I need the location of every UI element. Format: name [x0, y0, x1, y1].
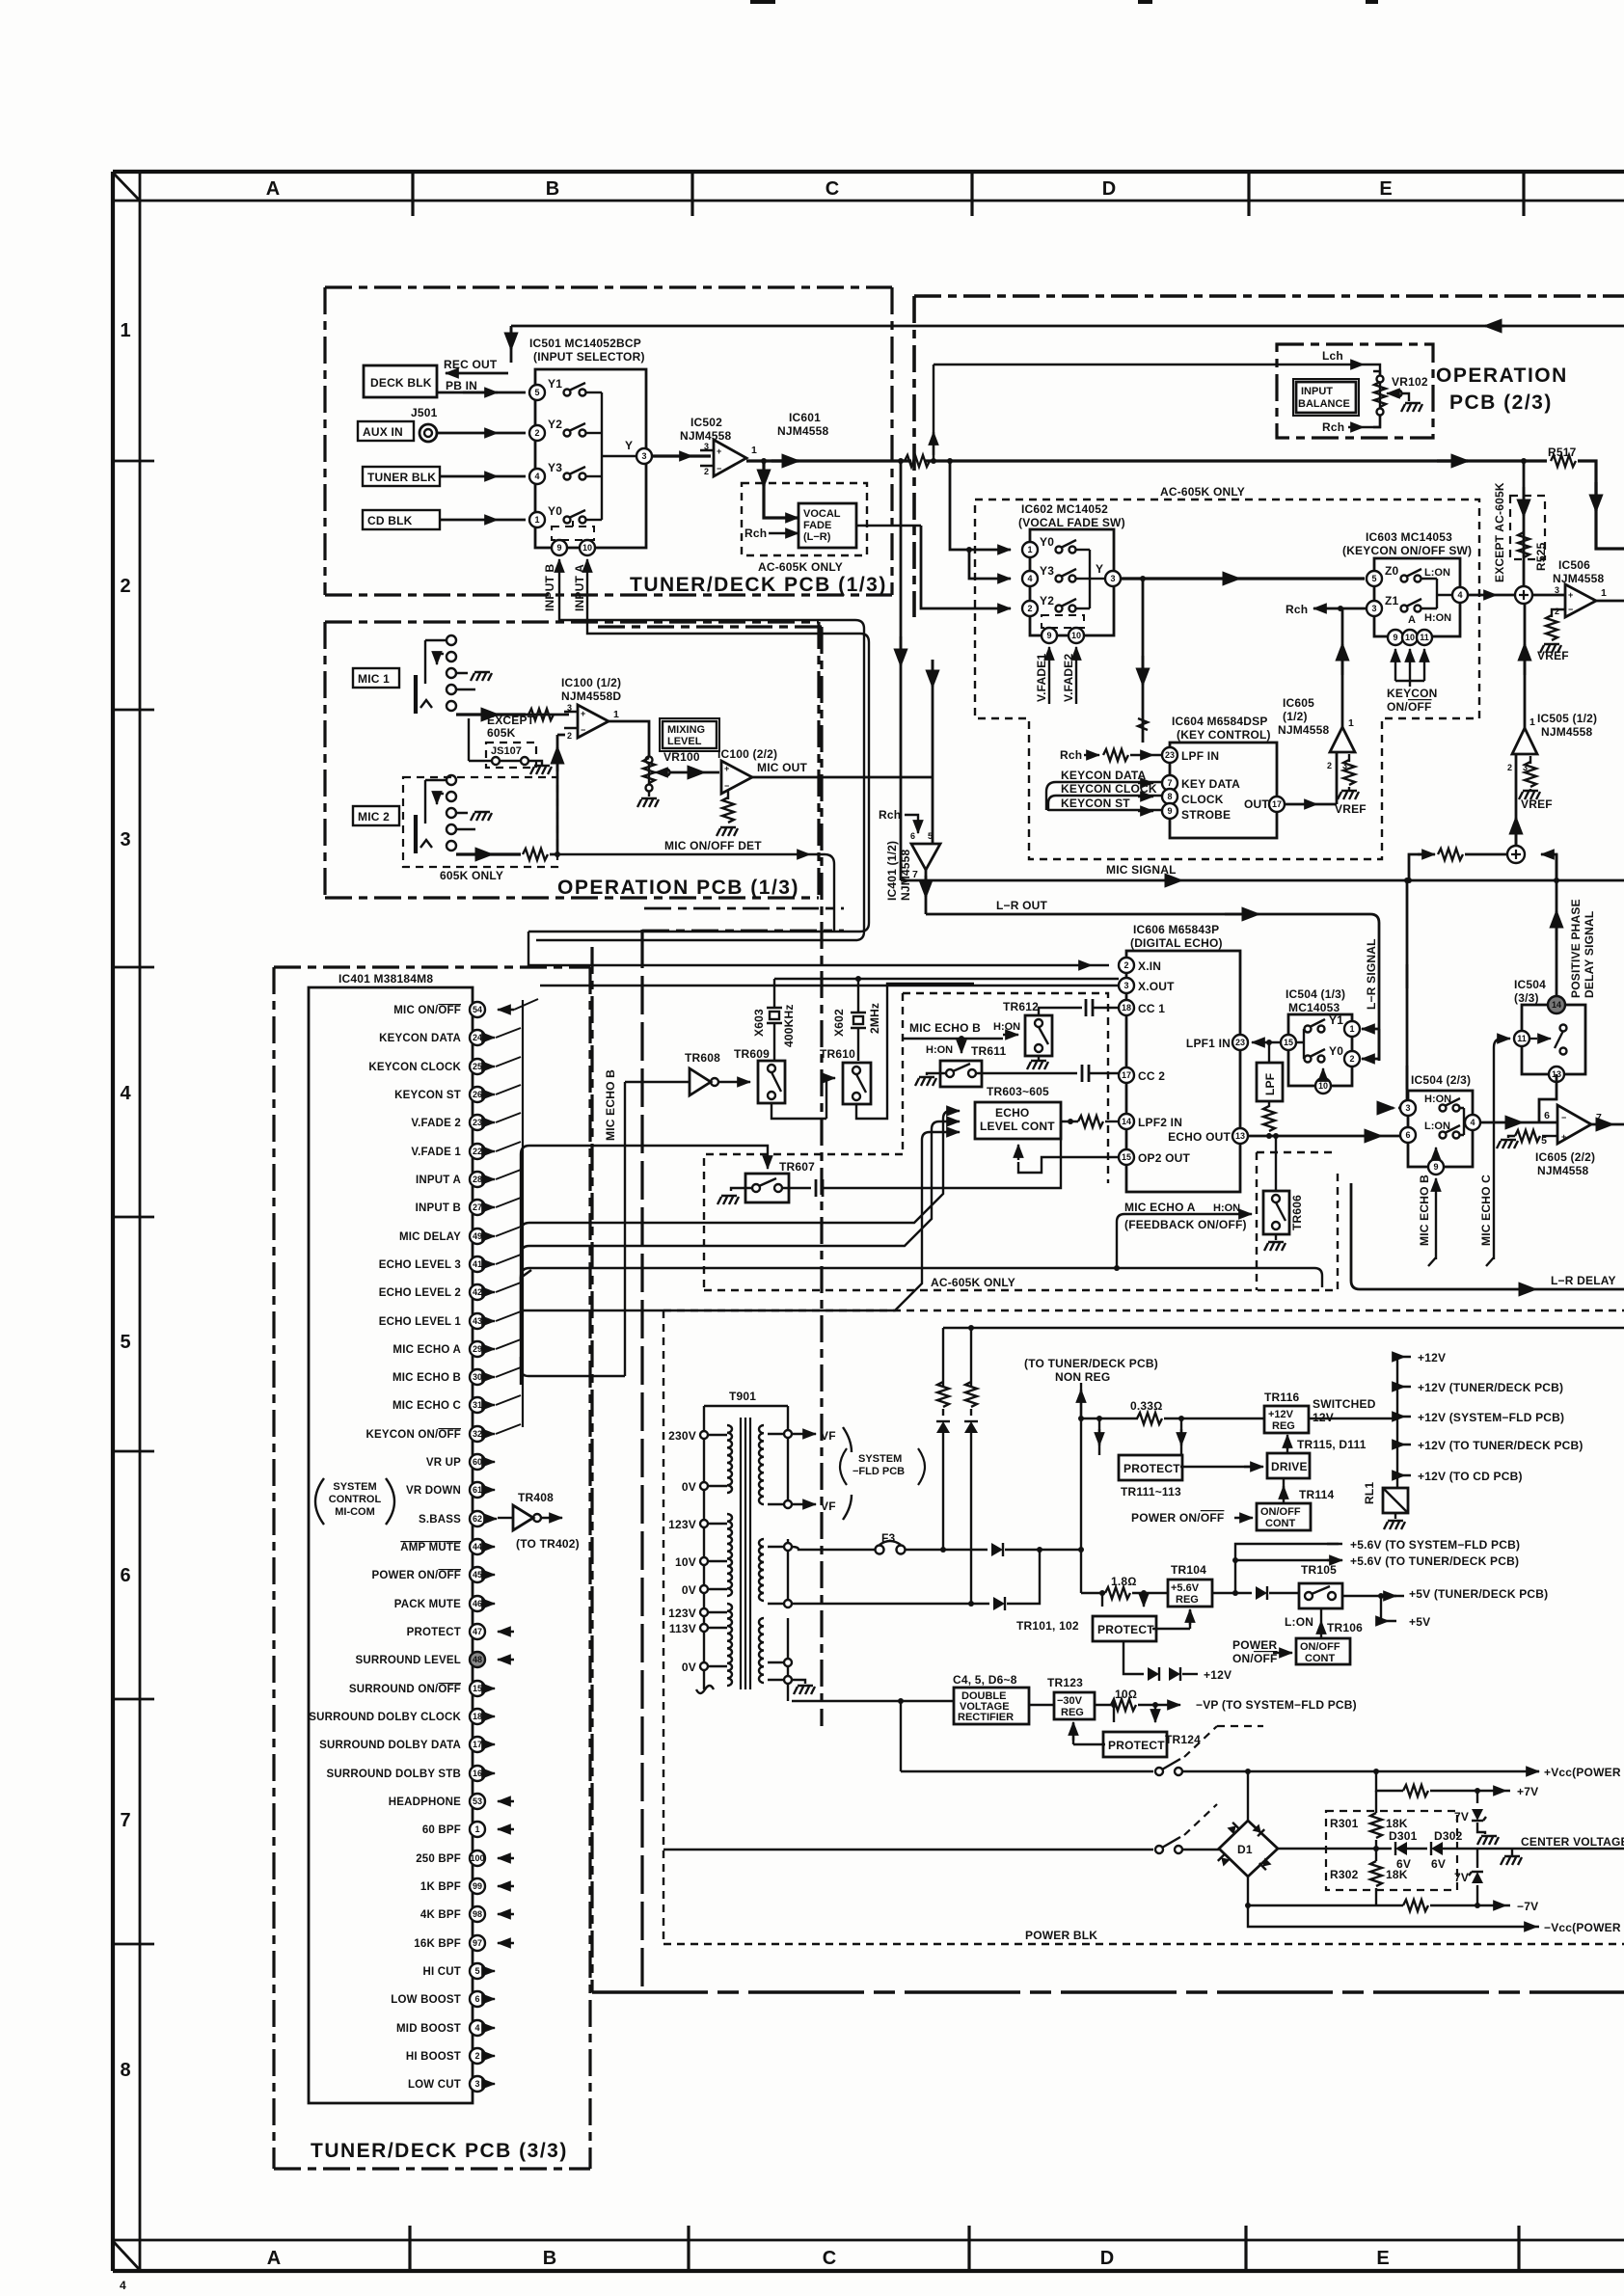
IC602 pin 4 switch Y3: [1022, 571, 1038, 586]
svg-text:VR UP: VR UP: [426, 1457, 461, 1469]
svg-text:VR100: VR100: [663, 750, 700, 764]
svg-text:EXCEPT: EXCEPT: [487, 714, 535, 727]
svg-text:JS107: JS107: [491, 745, 522, 757]
svg-text:1: 1: [120, 320, 130, 341]
svg-text:2: 2: [704, 467, 709, 476]
wire ECHO OUT line: [1248, 1135, 1400, 1138]
svg-text:VR102: VR102: [1392, 375, 1428, 389]
IC602 pins 9 10 V.FADE: [1042, 628, 1057, 643]
svg-text:6: 6: [1544, 1110, 1550, 1121]
svg-text:41: 41: [473, 1259, 482, 1269]
output -VP: [1171, 1704, 1180, 1706]
dashed region AC-605K (echo): [704, 993, 1338, 1290]
svg-text:NJM4558: NJM4558: [1541, 725, 1593, 739]
svg-text:10Ω: 10Ω: [1115, 1688, 1137, 1701]
svg-text:4: 4: [120, 1083, 131, 1104]
svg-text:6: 6: [910, 831, 915, 841]
svg-text:+5.6V (TO SYSTEM−FLD PCB): +5.6V (TO SYSTEM−FLD PCB): [1350, 1538, 1520, 1552]
svg-text:7V: 7V: [1454, 1810, 1469, 1823]
PCB border big box top edge (operation 2/3): [914, 294, 1624, 298]
IC606 pin 2 X.IN: [1119, 958, 1134, 973]
svg-text:POWER BLK: POWER BLK: [1025, 1929, 1097, 1942]
svg-text:+12V (TUNER/DECK PCB): +12V (TUNER/DECK PCB): [1418, 1381, 1563, 1394]
svg-text:H:ON: H:ON: [993, 1021, 1020, 1033]
svg-text:D301: D301: [1389, 1829, 1418, 1843]
svg-text:CONT: CONT: [1305, 1653, 1335, 1664]
block CD BLK: [363, 510, 440, 529]
svg-text:3: 3: [567, 703, 572, 713]
T901 VF outputs: [792, 1433, 816, 1435]
svg-text:0V: 0V: [682, 1480, 696, 1494]
svg-text:LPF: LPF: [1263, 1073, 1277, 1095]
wire R517 to right edge: [1578, 461, 1624, 549]
svg-text:LPF IN: LPF IN: [1181, 749, 1219, 763]
output +12V (TUNER/DECK PCB): [1397, 1386, 1411, 1388]
svg-text:Z1: Z1: [1385, 594, 1399, 608]
svg-text:+: +: [581, 709, 585, 718]
resistor (line): [905, 455, 930, 467]
svg-text:NJM4558: NJM4558: [777, 424, 829, 438]
svg-text:3: 3: [641, 451, 646, 461]
svg-text:1: 1: [474, 1824, 479, 1834]
IC501 pin 5 switch Y1: [529, 385, 545, 400]
wire IC504(2/3) out to IC605(2/2): [1480, 1121, 1557, 1124]
+12V output arrows: [1396, 1357, 1398, 1488]
svg-text:MIC ECHO A: MIC ECHO A: [1124, 1201, 1196, 1214]
svg-text:CC 2: CC 2: [1138, 1069, 1165, 1083]
svg-text:11: 11: [1517, 1034, 1527, 1043]
svg-text:A: A: [267, 2248, 281, 2269]
svg-text:47: 47: [473, 1627, 482, 1636]
svg-text:42: 42: [473, 1287, 482, 1297]
svg-text:AC-605K ONLY: AC-605K ONLY: [1160, 485, 1245, 499]
svg-text:−30V: −30V: [1057, 1695, 1083, 1707]
svg-text:SYSTEM: SYSTEM: [858, 1453, 902, 1465]
svg-text:VREF: VREF: [1521, 797, 1553, 811]
svg-text:LEVEL: LEVEL: [667, 736, 702, 747]
svg-text:+: +: [724, 764, 729, 773]
svg-text:MIC ECHO B: MIC ECHO B: [909, 1021, 981, 1035]
svg-text:(KEYCON ON/OFF SW): (KEYCON ON/OFF SW): [1342, 544, 1472, 557]
T901 core: [741, 1418, 750, 1689]
svg-text:CC 1: CC 1: [1138, 1002, 1165, 1015]
svg-text:VOCAL: VOCAL: [803, 508, 841, 520]
svg-text:IC602 MC14052: IC602 MC14052: [1021, 502, 1108, 516]
svg-text:POWER: POWER: [1232, 1638, 1277, 1652]
switch (power amp relay contact 1): [901, 1770, 1153, 1772]
svg-text:10: 10: [1318, 1081, 1328, 1091]
svg-text:15: 15: [1122, 1152, 1131, 1162]
resistor + ground IC605(2/2) pin5: [1514, 1135, 1541, 1137]
svg-text:+: +: [1561, 1132, 1566, 1142]
svg-text:30: 30: [473, 1372, 482, 1382]
svg-text:+12V: +12V: [1268, 1409, 1294, 1420]
svg-text:IC504 (2/3): IC504 (2/3): [1411, 1073, 1471, 1087]
svg-text:INPUT B: INPUT B: [543, 563, 556, 611]
svg-text:PACK MUTE: PACK MUTE: [394, 1599, 461, 1610]
wire NON REG bus: [1080, 1383, 1082, 1593]
svg-text:TR111~113: TR111~113: [1121, 1485, 1181, 1499]
svg-text:PCB (2/3): PCB (2/3): [1449, 392, 1553, 414]
svg-text:16: 16: [473, 1769, 482, 1778]
svg-text:MIC ECHO C: MIC ECHO C: [392, 1400, 461, 1412]
IC501 pin 3 output: [636, 448, 652, 464]
svg-text:17: 17: [473, 1740, 482, 1749]
PCB border vertical x614: [590, 947, 593, 1992]
wire input bus B: [536, 608, 864, 940]
resistor + VREF under IC506: [1552, 609, 1565, 617]
svg-text:TR124: TR124: [1165, 1733, 1201, 1746]
output +5V (TUNER/DECK PCB): [1389, 1595, 1404, 1597]
svg-text:1: 1: [1349, 1024, 1354, 1034]
svg-text:IC604 M6584DSP: IC604 M6584DSP: [1172, 715, 1268, 728]
svg-text:2: 2: [1555, 607, 1559, 616]
svg-text:HI BOOST: HI BOOST: [406, 2051, 461, 2063]
svg-text:IC504: IC504: [1514, 978, 1546, 991]
svg-text:LPF2 IN: LPF2 IN: [1138, 1116, 1182, 1129]
svg-text:0V: 0V: [682, 1661, 696, 1674]
svg-text:R525: R525: [1534, 542, 1548, 571]
svg-text:SURROUND DOLBY CLOCK: SURROUND DOLBY CLOCK: [309, 1712, 461, 1723]
svg-text:R302: R302: [1330, 1868, 1359, 1881]
svg-text:TR115, D111: TR115, D111: [1297, 1438, 1367, 1451]
IC501 pins 9 10: [552, 540, 567, 555]
svg-text:PB IN: PB IN: [446, 379, 477, 392]
svg-text:SWITCHED: SWITCHED: [1313, 1397, 1376, 1411]
svg-text:ON/OFF: ON/OFF: [1232, 1652, 1278, 1665]
dashed box R301/R302: [1326, 1811, 1457, 1890]
svg-text:+12V: +12V: [1204, 1668, 1232, 1682]
svg-text:TR608: TR608: [685, 1051, 720, 1065]
svg-text:CLOCK: CLOCK: [1181, 793, 1224, 806]
svg-text:2: 2: [1327, 761, 1332, 770]
svg-text:ON/OFF: ON/OFF: [1260, 1506, 1301, 1518]
svg-text:1: 1: [613, 709, 619, 720]
svg-text:H:ON: H:ON: [1213, 1202, 1240, 1214]
svg-text:17: 17: [1272, 799, 1282, 809]
connector MIC 2 jack: [403, 777, 557, 867]
block LPF: [1268, 1042, 1270, 1063]
svg-text:1: 1: [1348, 717, 1354, 729]
svg-text:D: D: [1100, 2248, 1114, 2269]
svg-text:8: 8: [1167, 792, 1172, 801]
svg-text:E: E: [1376, 2248, 1389, 2269]
svg-text:RECTIFIER: RECTIFIER: [958, 1712, 1014, 1723]
svg-text:HEADPHONE: HEADPHONE: [389, 1796, 461, 1808]
svg-text:REG: REG: [1272, 1420, 1295, 1432]
output +12V (TO TUNER/DECK PCB): [1397, 1444, 1411, 1445]
svg-text:MIC ECHO A: MIC ECHO A: [392, 1344, 461, 1356]
svg-text:7: 7: [1167, 778, 1172, 788]
svg-text:4K BPF: 4K BPF: [420, 1909, 461, 1921]
svg-text:5: 5: [474, 1966, 479, 1976]
svg-text:POWER ON/OFF: POWER ON/OFF: [372, 1570, 462, 1581]
svg-text:250 BPF: 250 BPF: [416, 1853, 461, 1865]
power rail top: [943, 1327, 1624, 1329]
svg-text:S.BASS: S.BASS: [419, 1514, 461, 1526]
svg-text:31: 31: [473, 1400, 482, 1410]
svg-text:TR123: TR123: [1047, 1676, 1083, 1689]
svg-text:46: 46: [473, 1599, 482, 1608]
svg-text:3: 3: [1123, 981, 1128, 990]
svg-text:MIC 2: MIC 2: [358, 810, 390, 824]
IC602 pin 1 switch Y0: [1022, 542, 1038, 557]
svg-text:INPUT B: INPUT B: [416, 1202, 461, 1214]
svg-text:KEY DATA: KEY DATA: [1181, 777, 1240, 791]
svg-text:MIC ON/OFF: MIC ON/OFF: [393, 1005, 461, 1016]
svg-text:C: C: [823, 2248, 836, 2269]
svg-text:L−R DELAY: L−R DELAY: [1551, 1274, 1616, 1287]
svg-text:TR606: TR606: [1290, 1195, 1304, 1230]
wire MIC ECHO B bus x648: [624, 1082, 626, 1376]
svg-text:10: 10: [1071, 631, 1081, 640]
svg-text:Y1: Y1: [1329, 1013, 1343, 1027]
PCB block TUNER/DECK PCB (3/3) border: [274, 967, 590, 2169]
bridge rectifier D1: [1219, 1821, 1278, 1877]
svg-text:V.FADE 1: V.FADE 1: [411, 1147, 461, 1158]
svg-text:ECHO LEVEL 1: ECHO LEVEL 1: [379, 1316, 462, 1328]
svg-text:IC100 (2/2): IC100 (2/2): [717, 747, 777, 761]
T901 tap 0V: [700, 1662, 708, 1670]
svg-text:IC606 M65843P: IC606 M65843P: [1133, 923, 1219, 936]
output -Vcc: [1248, 1905, 1539, 1927]
svg-text:+12V (SYSTEM−FLD PCB): +12V (SYSTEM−FLD PCB): [1418, 1411, 1564, 1424]
wire channel vertical x542: [522, 1000, 524, 1427]
svg-text:3: 3: [1110, 574, 1115, 583]
svg-text:2: 2: [1349, 1054, 1354, 1064]
svg-text:STROBE: STROBE: [1181, 808, 1231, 822]
wire X.IN feed: [528, 964, 1109, 966]
wire bridge top to +Vcc: [1182, 1770, 1539, 1772]
block MIXING LEVEL: [663, 721, 717, 748]
svg-text:AC-605K ONLY: AC-605K ONLY: [931, 1276, 1015, 1289]
T901 tap 230V: [700, 1431, 708, 1439]
wire channel top: [528, 965, 529, 967]
svg-text:DELAY SIGNAL: DELAY SIGNAL: [1583, 911, 1596, 998]
svg-text:7V: 7V: [1454, 1871, 1469, 1884]
svg-text:10: 10: [582, 543, 592, 553]
svg-text:J501: J501: [411, 406, 438, 419]
capacitor CC1: [1052, 1007, 1082, 1009]
T901 tap 0V: [700, 1482, 708, 1490]
IC501 pin 2 switch Y2: [529, 425, 545, 441]
svg-text:+12V (TO CD PCB): +12V (TO CD PCB): [1418, 1470, 1523, 1483]
svg-text:B: B: [546, 178, 559, 200]
wire input bus A: [528, 617, 869, 932]
svg-text:CONTROL: CONTROL: [329, 1494, 382, 1505]
svg-text:4: 4: [474, 2023, 479, 2033]
svg-text:IC501 MC14052BCP: IC501 MC14052BCP: [529, 337, 641, 350]
svg-text:53: 53: [473, 1796, 482, 1806]
svg-text:D1: D1: [1237, 1843, 1253, 1856]
svg-text:Rch: Rch: [1060, 748, 1082, 762]
svg-text:7: 7: [120, 1810, 130, 1831]
svg-text:54: 54: [473, 1005, 482, 1014]
scan artifacts top edge: [750, 0, 775, 4]
output +5V: [1381, 1596, 1396, 1621]
svg-text:98: 98: [473, 1909, 482, 1919]
svg-text:T901: T901: [729, 1390, 756, 1403]
svg-text:6: 6: [1405, 1130, 1410, 1140]
IC603 pin 4 output: [1452, 587, 1468, 603]
svg-text:Y3: Y3: [548, 461, 562, 474]
T901 tap 10V: [700, 1557, 708, 1565]
svg-text:3: 3: [704, 442, 709, 451]
svg-text:NON REG: NON REG: [1055, 1370, 1110, 1384]
svg-text:3: 3: [1371, 604, 1376, 613]
svg-text:4: 4: [1027, 574, 1032, 583]
block PROTECT TR124: [1103, 1732, 1167, 1757]
svg-text:TUNER/DECK PCB (3/3): TUNER/DECK PCB (3/3): [311, 2140, 568, 2162]
svg-text:BALANCE: BALANCE: [1298, 398, 1350, 410]
svg-text:A: A: [1408, 614, 1416, 626]
svg-text:1: 1: [1529, 716, 1535, 728]
svg-text:(TO TR402): (TO TR402): [516, 1537, 580, 1551]
svg-text:TR612: TR612: [1003, 1000, 1039, 1013]
PCB block TUNER/DECK PCB (1/3) border: [325, 287, 892, 595]
wire LPF2 IN: [1061, 1121, 1078, 1122]
svg-text:PROTECT: PROTECT: [1123, 1462, 1180, 1475]
svg-text:TR610: TR610: [820, 1047, 855, 1061]
svg-text:MIC 1: MIC 1: [358, 672, 390, 686]
svg-text:Y2: Y2: [1040, 594, 1054, 608]
output +12V (SYSTEM-FLD PCB): [1397, 1416, 1411, 1418]
svg-text:TR104: TR104: [1171, 1563, 1206, 1577]
T901 secondary windings: [759, 1425, 764, 1504]
svg-text:NJM4558: NJM4558: [680, 429, 732, 443]
svg-text:−: −: [581, 725, 585, 735]
T901 primary windings: [727, 1425, 732, 1493]
svg-text:Y0: Y0: [1040, 535, 1054, 549]
svg-text:15: 15: [1284, 1038, 1293, 1047]
svg-text:45: 45: [473, 1570, 482, 1580]
svg-text:(INPUT SELECTOR): (INPUT SELECTOR): [533, 350, 645, 364]
junction sum node to IC506: [1515, 586, 1532, 604]
svg-text:2: 2: [1123, 960, 1128, 970]
svg-text:+: +: [717, 446, 721, 456]
svg-text:60 BPF: 60 BPF: [422, 1824, 461, 1836]
svg-text:62: 62: [473, 1514, 482, 1524]
svg-text:3: 3: [1405, 1103, 1410, 1113]
svg-text:18: 18: [473, 1712, 482, 1721]
IC501 pin 4 switch Y3: [529, 469, 545, 484]
block PROTECT TR111~113: [1119, 1455, 1182, 1480]
switch (power amp relay contact 2): [663, 1849, 1153, 1850]
IC603 pin 3 switch Z1: [1367, 601, 1382, 616]
svg-text:KEYCON DATA: KEYCON DATA: [379, 1033, 461, 1044]
svg-text:IC401 M38184M8: IC401 M38184M8: [338, 972, 433, 986]
wire mic1 to IC100: [456, 713, 526, 716]
svg-text:7: 7: [1596, 1112, 1602, 1123]
svg-text:(KEY CONTROL): (KEY CONTROL): [1177, 728, 1271, 742]
svg-text:LOW CUT: LOW CUT: [408, 2079, 461, 2091]
output +7V: [1376, 1771, 1403, 1791]
svg-text:100: 100: [470, 1853, 484, 1863]
IC603 pins 9 10 11 KEYCON: [1388, 630, 1403, 645]
svg-text:3: 3: [120, 829, 130, 851]
svg-text:B: B: [543, 2248, 556, 2269]
svg-text:17: 17: [1122, 1070, 1131, 1080]
T901 tap 0V: [700, 1585, 708, 1593]
IC606 pin 18 CC 1: [1119, 1000, 1134, 1015]
svg-text:TR408: TR408: [518, 1491, 554, 1504]
svg-text:TR607: TR607: [779, 1160, 815, 1174]
svg-text:L:ON: L:ON: [1424, 1121, 1450, 1132]
svg-text:X.OUT: X.OUT: [1138, 980, 1175, 993]
svg-text:29: 29: [473, 1344, 482, 1354]
output +12V (TO CD PCB): [1397, 1474, 1411, 1476]
svg-text:49: 49: [473, 1231, 482, 1241]
svg-text:RL1: RL1: [1363, 1482, 1376, 1504]
T901 tap 113V: [700, 1624, 708, 1632]
block DECK BLK: [364, 365, 437, 397]
svg-text:A: A: [266, 178, 280, 200]
svg-text:X.IN: X.IN: [1138, 959, 1161, 973]
svg-text:SYSTEM: SYSTEM: [333, 1481, 376, 1493]
wire bottom secondary to DVR: [792, 1700, 954, 1702]
svg-text:Rch: Rch: [879, 808, 901, 822]
output +12V: [1397, 1356, 1411, 1358]
svg-text:2: 2: [567, 731, 572, 741]
diode rectifier (second line): [993, 1597, 1005, 1610]
op-amp IC605 (2/2): [1557, 1105, 1591, 1144]
svg-text:123V: 123V: [668, 1518, 696, 1531]
svg-text:D: D: [1102, 178, 1116, 200]
resistor + ground under IC100 (2/2): [727, 791, 729, 799]
svg-text:+5.6V: +5.6V: [1171, 1582, 1200, 1594]
PCB block OPERATION PCB (2/3) inner box: [1277, 344, 1433, 438]
wire LPF1 IN link: [1252, 1041, 1281, 1043]
svg-text:X602: X602: [832, 1009, 846, 1037]
svg-text:OPERATION PCB (1/3): OPERATION PCB (1/3): [557, 877, 799, 899]
svg-text:11: 11: [1420, 633, 1429, 642]
svg-text:24: 24: [473, 1033, 482, 1042]
svg-text:L:ON: L:ON: [1424, 567, 1450, 579]
svg-text:MIC ON/OFF DET: MIC ON/OFF DET: [664, 839, 762, 852]
wire L-R SIGNAL into pins 1,2: [1362, 1028, 1379, 1031]
svg-text:28: 28: [473, 1175, 482, 1184]
svg-text:ECHO LEVEL 2: ECHO LEVEL 2: [379, 1287, 461, 1299]
svg-text:MIC SIGNAL: MIC SIGNAL: [1106, 863, 1177, 877]
svg-text:3: 3: [1555, 585, 1559, 595]
connector JS107: [486, 743, 536, 768]
wire IC100 out to VR100: [609, 721, 649, 757]
svg-text:REG: REG: [1061, 1707, 1084, 1718]
svg-text:15: 15: [473, 1684, 482, 1693]
svg-text:IC506: IC506: [1558, 558, 1590, 572]
svg-text:AC-605K ONLY: AC-605K ONLY: [758, 560, 843, 574]
rectifier branch 1 (resistor + diode): [942, 1328, 944, 1387]
svg-text:IC605 (2/2): IC605 (2/2): [1535, 1150, 1595, 1164]
svg-text:Y2: Y2: [548, 418, 562, 431]
svg-text:INPUT: INPUT: [1301, 386, 1333, 397]
svg-text:OPERATION: OPERATION: [1436, 365, 1568, 387]
PCB border vertical x852: [820, 627, 823, 1726]
svg-text:605K: 605K: [487, 726, 516, 740]
svg-text:AUX IN: AUX IN: [363, 425, 403, 439]
svg-text:DECK BLK: DECK BLK: [370, 376, 432, 390]
svg-text:(DIGITAL ECHO): (DIGITAL ECHO): [1130, 936, 1223, 950]
svg-text:L−R SIGNAL: L−R SIGNAL: [1365, 938, 1378, 1010]
svg-text:−: −: [1561, 1113, 1566, 1122]
wire down to key control: [1142, 579, 1145, 743]
svg-text:MIC ECHO B: MIC ECHO B: [1418, 1175, 1431, 1246]
svg-text:123V: 123V: [668, 1607, 696, 1620]
svg-text:SURROUND DOLBY DATA: SURROUND DOLBY DATA: [319, 1740, 461, 1751]
wire bus vertical x967: [932, 660, 934, 837]
svg-text:TUNER BLK: TUNER BLK: [367, 471, 436, 484]
svg-text:MIC DELAY: MIC DELAY: [399, 1231, 461, 1243]
